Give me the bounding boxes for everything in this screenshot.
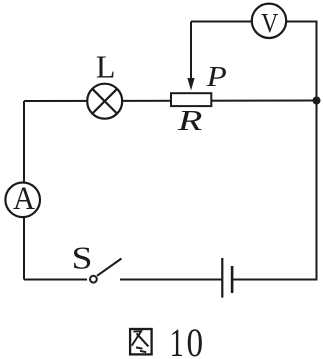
svg-text:0: 0 <box>187 320 204 359</box>
svg-text:R: R <box>177 105 203 137</box>
svg-text:A: A <box>13 181 35 217</box>
svg-text:P: P <box>206 61 227 93</box>
svg-text:V: V <box>261 8 279 38</box>
svg-text:1: 1 <box>170 320 184 359</box>
svg-text:L: L <box>96 48 116 84</box>
svg-text:S: S <box>72 240 93 276</box>
